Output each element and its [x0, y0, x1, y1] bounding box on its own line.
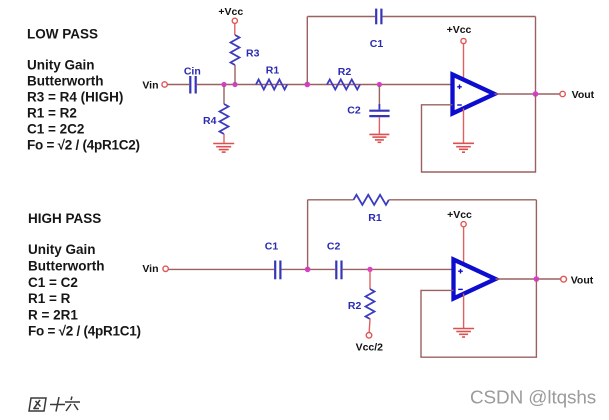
svg-text:R2: R2 [348, 300, 362, 312]
wire R4 to ground [223, 134, 225, 143]
svg-text:R1 = R2: R1 = R2 [27, 105, 77, 120]
resistor R4 [220, 104, 229, 134]
wire top feedback right [383, 16, 536, 18]
node output junction (lower) [534, 276, 540, 282]
wire feedback to inverting input (lower) [421, 279, 536, 357]
resistor R2 (upper) [327, 80, 360, 90]
wire top feedback left [307, 16, 375, 18]
wire Cin to opamp input [197, 84, 453, 86]
svg-text:R4: R4 [203, 115, 217, 127]
svg-text:Vcc/2: Vcc/2 [356, 342, 384, 354]
wire Vcc to op-amp (lower) [463, 227, 465, 265]
svg-text:Fo = √2 / (4pR1C2): Fo = √2 / (4pR1C2) [27, 138, 140, 153]
svg-text:R1: R1 [368, 212, 382, 224]
svg-text:+Vcc: +Vcc [447, 209, 472, 221]
wire feedback riser [306, 17, 308, 85]
node junction C2 [377, 82, 382, 87]
wire node to R4 [223, 85, 225, 105]
node Vout terminal (upper) [560, 91, 565, 96]
svg-text:Vin: Vin [142, 263, 158, 275]
wire node to R2 [369, 269, 371, 289]
svg-text:C1: C1 [265, 241, 279, 253]
svg-text:C1 = 2C2: C1 = 2C2 [27, 121, 84, 136]
wire Vcc to op-amp [463, 44, 465, 80]
ground below op-amp U1 [453, 143, 474, 152]
wire output [495, 93, 560, 95]
svg-text:Unity Gain: Unity Gain [28, 242, 96, 257]
svg-text:Vout: Vout [572, 89, 595, 101]
node Vin terminal (lower) [163, 266, 168, 271]
svg-text:Fo = √2 / (4pR1C1): Fo = √2 / (4pR1C1) [28, 324, 141, 339]
node Vin terminal (upper) [162, 82, 167, 87]
wire R3 to node [234, 65, 236, 85]
wire op-amp to ground (lower) [463, 294, 465, 329]
svg-text:HIGH PASS: HIGH PASS [28, 211, 101, 226]
resistor R3 [231, 35, 240, 65]
wire C2 to opamp [343, 268, 454, 270]
svg-text:Vout: Vout [571, 274, 594, 286]
node junction R2 (lower) [367, 267, 372, 272]
svg-text:R2: R2 [338, 66, 352, 78]
svg-text:Cin: Cin [184, 65, 201, 77]
resistor R1 (lower, feedback) [354, 195, 389, 205]
capacitor Cin [190, 76, 195, 94]
wire feedback riser (lower) [307, 200, 309, 270]
op-amp U2 [454, 260, 496, 299]
wire Vcc to R3 [234, 24, 236, 36]
svg-text:LOW PASS: LOW PASS [27, 26, 98, 41]
svg-text:Butterworth: Butterworth [28, 259, 105, 274]
node junction feedback C1 [305, 82, 311, 88]
wire top feedback left (lower) [308, 199, 354, 201]
svg-text:+Vcc: +Vcc [218, 6, 243, 18]
capacitor C1 (upper) [376, 9, 381, 25]
wire node to C2 [378, 85, 380, 105]
ground below C2 [369, 134, 389, 142]
svg-text:CSDN @ltqshs: CSDN @ltqshs [470, 388, 596, 409]
node junction feedback R1 [305, 267, 311, 273]
resistor R1 (upper) [256, 80, 287, 90]
svg-text:C2: C2 [347, 105, 361, 117]
ground below op-amp U2 [453, 329, 474, 338]
svg-text:Butterworth: Butterworth [27, 73, 104, 88]
wire Vin to Cin [167, 84, 189, 86]
capacitor C2 (upper) [369, 111, 389, 116]
svg-text:R1 = R: R1 = R [28, 291, 71, 306]
svg-text:Vin: Vin [142, 79, 158, 91]
capacitor C2 (lower) [336, 261, 341, 280]
svg-text:C1 = C2: C1 = C2 [28, 275, 78, 290]
wire right feedback drop [535, 17, 537, 95]
svg-text:R3: R3 [246, 48, 260, 60]
wire Vin to C1 [168, 268, 274, 270]
ground below R4 [213, 144, 234, 153]
svg-text:R1: R1 [266, 65, 280, 77]
resistor R2 (lower) [366, 289, 375, 319]
node Vcc/2 terminal [366, 333, 372, 339]
wire feedback to inverting input [422, 94, 536, 172]
node junction R3 [232, 82, 237, 87]
wire top feedback right (lower) [389, 199, 536, 201]
wire R2 to Vcc/2 [368, 319, 371, 333]
wire right feedback drop (lower) [535, 200, 537, 279]
node Vout terminal (lower) [561, 276, 567, 282]
svg-text:Unity Gain: Unity Gain [27, 57, 95, 72]
wire output (lower) [496, 278, 561, 280]
wire C2 to ground [378, 117, 380, 134]
svg-text:+Vcc: +Vcc [447, 24, 472, 36]
node junction R4 [221, 82, 226, 87]
op-amp U1 [453, 75, 495, 114]
wire op-amp to ground [463, 109, 465, 143]
capacitor C1 (lower) [275, 261, 280, 280]
node output junction [533, 91, 539, 97]
svg-text:C1: C1 [370, 38, 384, 50]
svg-text:C2: C2 [327, 241, 341, 253]
svg-text:R = 2R1: R = 2R1 [28, 307, 78, 322]
wire C1 to C2 [282, 268, 335, 270]
text figure label 图十六 (drawn strokes) [29, 397, 80, 412]
svg-text:R3 = R4 (HIGH): R3 = R4 (HIGH) [27, 89, 123, 104]
